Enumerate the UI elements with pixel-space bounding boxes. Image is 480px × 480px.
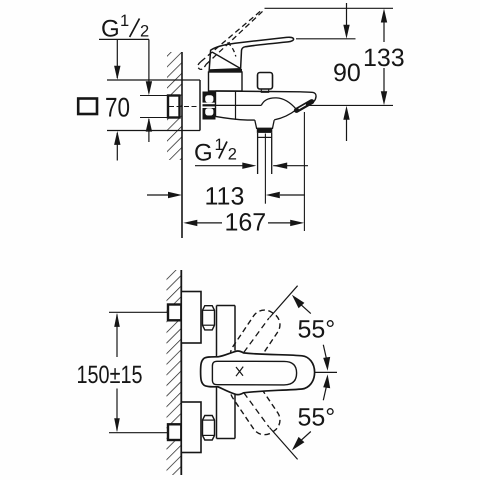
body internal vertical line	[235, 91, 237, 120]
svg-text:167: 167	[225, 209, 267, 237]
lower supply elbow	[168, 424, 181, 440]
wall hatching (bottom drawing)	[167, 270, 182, 475]
svg-text:2: 2	[228, 145, 237, 163]
spout bottom extension line	[310, 104, 394, 106]
lever crease	[212, 52, 241, 69]
center cross mark	[236, 367, 243, 377]
supply elbow square in wall	[168, 96, 180, 118]
lower union nut	[203, 416, 215, 441]
escutcheon plate (side) with extension lines of dim 70	[107, 79, 200, 81]
dimension 113 arrows (outside)	[147, 194, 168, 196]
dimension 150±15	[116, 315, 118, 358]
body bottom edge	[216, 116, 255, 120]
wall face line	[180, 270, 182, 475]
lower dashed swing centerline	[232, 377, 269, 428]
hose edges	[257, 133, 259, 174]
lever underside bold line	[209, 69, 243, 72]
square symbol of dim 70	[78, 99, 97, 115]
svg-text:G: G	[101, 15, 120, 42]
upper escutcheon plate	[181, 292, 201, 344]
lower escutcheon plate	[181, 402, 201, 453]
dimension 133 (inside arrows)	[383, 22, 385, 42]
svg-text:55°: 55°	[298, 403, 336, 431]
lever handle (solid)	[209, 37, 293, 70]
body midline	[216, 104, 262, 106]
upper 55 deg arrows	[292, 295, 305, 309]
body bar (top view)	[217, 305, 236, 307]
svg-text:70: 70	[105, 93, 130, 123]
svg-text:55°: 55°	[298, 315, 336, 343]
dark ring band	[257, 128, 273, 133]
lever (top view) outer outline	[201, 351, 315, 395]
body left edge	[215, 91, 217, 117]
underside dome	[261, 98, 296, 109]
lever (top view) inner outline	[212, 361, 296, 385]
diverter knob	[258, 73, 273, 90]
wall hatching (top view wall section)	[167, 52, 182, 160]
svg-text:2: 2	[140, 23, 149, 41]
horizontal centerline (right)	[315, 371, 337, 373]
lower connection extension line	[109, 432, 168, 434]
inlet dashed centerline	[169, 106, 199, 108]
aerator (slanted outlet face)	[296, 102, 311, 111]
upper dashed lever position	[225, 305, 285, 374]
svg-text:90: 90	[333, 59, 361, 87]
wall face line	[181, 52, 183, 238]
dimension 70 arrows	[116, 39, 118, 78]
top extension line (raised lever tip)	[265, 7, 394, 9]
fraction slashes	[130, 19, 227, 159]
outlet flange	[255, 120, 274, 128]
upper angle extension line (solid)	[270, 286, 298, 318]
lower angle extension line (solid)	[270, 428, 298, 460]
dashed raised lever	[201, 10, 262, 62]
ring line	[257, 136, 272, 138]
faucet body: top edge and tip nose	[216, 91, 317, 101]
dimension 90 (outside arrows)	[346, 3, 348, 25]
upper union nut	[203, 306, 215, 330]
upper dashed swing centerline	[232, 318, 269, 369]
dashed swing arc near tip of solid lever	[228, 43, 236, 57]
svg-text:150±15: 150±15	[77, 361, 143, 389]
lower 55 deg arrows	[292, 437, 305, 451]
dimension G1/2 (top label) leader	[99, 38, 149, 40]
cartridge block	[209, 72, 243, 91]
svg-text:133: 133	[363, 44, 405, 72]
spout tip vertical extension (dim 167)	[303, 112, 305, 231]
dimension G1/2 (bottom label) arrows	[195, 165, 243, 167]
lever tip extension line	[296, 38, 356, 40]
lower dashed lever position	[225, 371, 285, 440]
svg-text:113: 113	[205, 183, 245, 211]
underside right curve	[274, 110, 296, 120]
elbow extension stubs	[140, 95, 168, 97]
upper supply elbow	[168, 305, 181, 321]
svg-text:1: 1	[120, 12, 129, 30]
hose centerline (ext for dim 113)	[264, 134, 266, 204]
union nuts (dark block)	[203, 92, 216, 120]
dimension 167 arrows (inside)	[197, 222, 222, 224]
upper connection extension line	[109, 311, 168, 313]
svg-text:G: G	[194, 140, 213, 167]
